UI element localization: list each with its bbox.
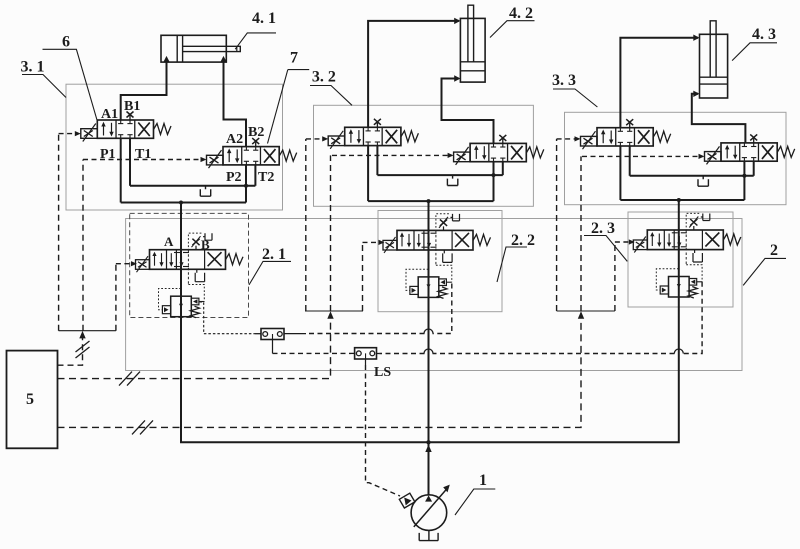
junction P2/T crossing s2	[492, 173, 496, 177]
wire T line section1	[130, 185, 255, 187]
wire P line section1	[121, 202, 246, 204]
wire P2 riser s2	[493, 162, 495, 201]
LS line comp2.3 seg2	[433, 353, 675, 355]
leader 3.1	[22, 75, 66, 98]
label 2.2	[511, 232, 535, 249]
label 2.1	[262, 246, 286, 263]
svg-text:4. 3: 4. 3	[752, 26, 776, 43]
pilot line into valve 2.2	[363, 240, 385, 245]
box 2.2 (compensator section 2 frame)	[378, 211, 502, 312]
svg-text:B1: B1	[124, 99, 140, 114]
svg-text:P1: P1	[100, 147, 116, 162]
wire T2 riser	[254, 165, 256, 186]
port label A1	[101, 107, 118, 122]
leader 7	[288, 69, 309, 71]
pilot riser to valve 2.1	[115, 264, 117, 331]
wire T1 riser s2	[376, 146, 378, 176]
LS stub into shuttle1 left	[255, 333, 261, 335]
pilot line into valve 7	[83, 157, 207, 162]
hop over pump line at LS2	[424, 349, 433, 354]
pilot bus section1	[59, 330, 116, 332]
svg-text:T2: T2	[258, 170, 274, 185]
pilot riser to valve 3.3R	[580, 156, 582, 311]
wire cyl4.1 left port to valve 6 A1	[121, 60, 167, 120]
label 3.1	[21, 59, 45, 76]
port label B (valve 2.1)	[201, 237, 210, 252]
leader 7b	[268, 70, 288, 144]
tank symbol section3	[698, 176, 708, 186]
pilot supply from 5 line c	[58, 316, 582, 427]
pilot riser to valve 3.3L	[556, 139, 558, 311]
directional valve 3.2 right	[454, 135, 544, 165]
label 2.3	[591, 220, 615, 237]
pilot line into valve 6	[59, 131, 81, 136]
LS stub shuttle2 bottom	[365, 359, 367, 365]
LS line shuttle1 to shuttle2	[273, 352, 352, 354]
leader 3.3	[553, 89, 597, 107]
hop over pump line at LS1	[424, 329, 433, 334]
svg-text:3. 1: 3. 1	[21, 59, 45, 76]
pump 1	[411, 485, 450, 531]
feed arrow bus2	[327, 311, 333, 319]
svg-text:B: B	[201, 237, 210, 252]
leader 2	[743, 258, 786, 285]
wire cyl4.3 bottom port to valve 3.3R A	[692, 94, 746, 143]
feed arrow bus1	[79, 331, 85, 339]
LS stub into shuttle2 left	[351, 352, 355, 354]
label LS	[374, 365, 391, 380]
label 2	[770, 242, 778, 259]
label 4.3	[752, 26, 776, 43]
box 2.3 (compensator section 3 frame)	[628, 212, 733, 307]
leader 4.2	[490, 21, 535, 38]
LS line comp2.3 seg3	[379, 353, 424, 355]
junction riser/P-line s2	[427, 199, 431, 203]
pilot supply from 5 line b	[58, 316, 331, 379]
hop over riser3 at LS	[674, 349, 683, 354]
pump tank symbol	[419, 530, 438, 540]
wire P1 riser	[120, 138, 122, 202]
LS stub shuttle1 bottom	[272, 340, 274, 354]
label 5	[26, 391, 34, 408]
leader 2.1	[249, 261, 291, 285]
pilot line into valve 2.3	[615, 239, 635, 244]
break symbol a	[76, 341, 90, 358]
LS line comp2.2 to shuttle1	[433, 284, 452, 334]
svg-text:A: A	[164, 234, 174, 249]
wire cyl4.3 top port to valve 3.3L A	[620, 38, 698, 128]
cylinder 4.1 port arrows	[163, 56, 226, 62]
svg-text:P2: P2	[226, 170, 242, 185]
label 3.3	[552, 72, 576, 89]
directional valve 3.2 left	[328, 119, 418, 149]
port label B2	[248, 125, 264, 140]
pump control actuator	[399, 493, 415, 508]
wire P1 riser s2	[367, 146, 369, 202]
port label B1	[124, 99, 140, 114]
wire P2 riser s3	[743, 161, 745, 200]
cylinder 4.2	[460, 5, 485, 82]
proportional valve 2.1	[136, 233, 244, 272]
label 1	[479, 472, 487, 489]
wire P line section2	[368, 200, 493, 202]
svg-text:7: 7	[290, 50, 298, 67]
junction P2/T crossing s3	[742, 174, 746, 178]
svg-text:A2: A2	[226, 132, 243, 147]
wire cyl4.1 right port to valve 7 A2	[224, 60, 247, 147]
junction P2/T crossing s1	[244, 184, 248, 188]
pressure compensator 2.2	[406, 230, 452, 298]
label 4.1	[252, 10, 276, 27]
leader 6	[43, 49, 98, 120]
pilot line into valve 3.2 right	[332, 153, 454, 158]
LS line comp2.1 to shuttle1	[200, 302, 255, 334]
break symbol b	[119, 372, 140, 386]
cylinder 4.3	[700, 21, 728, 98]
port label P2	[226, 170, 242, 185]
wire feed riser section1 (through valve 2.1 and compensator)	[181, 203, 429, 443]
pressure compensator 2.1	[159, 250, 205, 318]
reservoir/control unit 5	[7, 351, 58, 449]
wire feed riser section3 (through valve 2.3 and compensator)	[430, 200, 679, 442]
svg-text:2. 3: 2. 3	[591, 220, 615, 237]
directional valve 7 (section1 right)	[207, 138, 297, 168]
wire P1 riser s3	[619, 146, 621, 200]
break symbol c	[132, 420, 153, 434]
wire cyl4.2 top port to valve 3.2L A	[368, 21, 459, 127]
directional valve 3.3 left	[581, 119, 671, 149]
cylinder 4.1	[161, 35, 240, 62]
pilot line into valve 3.3 right	[582, 154, 705, 159]
junction riser/P-line s1	[179, 201, 183, 205]
proportional valve 2.3	[633, 213, 741, 252]
shuttle valve LS2	[355, 348, 377, 359]
label 4.2	[509, 5, 533, 22]
LS stub into shuttle2 right	[377, 353, 380, 355]
svg-text:3. 2: 3. 2	[312, 69, 336, 86]
junction main line/pump	[426, 440, 430, 444]
svg-text:T1: T1	[135, 147, 151, 162]
LS line comp2.3 to shuttle2	[683, 282, 702, 354]
tank symbol section1	[200, 186, 210, 196]
wire T2 riser s2	[502, 162, 504, 175]
port label P1	[100, 147, 116, 162]
pilot line into valve 3.3 left	[557, 136, 581, 141]
box 2 (inlet/compensator assembly frame)	[126, 219, 742, 371]
port label A2	[226, 132, 243, 147]
directional valve 6 (section1 left)	[81, 112, 171, 142]
label 3.2	[312, 69, 336, 86]
pilot riser to valve 2.2	[362, 242, 364, 311]
tank symbol section2	[447, 175, 457, 185]
wire T line section2	[377, 174, 502, 176]
pressure compensator 2.3	[656, 230, 702, 298]
svg-text:LS: LS	[374, 365, 391, 380]
port label T1	[135, 147, 151, 162]
svg-text:3. 3: 3. 3	[552, 72, 576, 89]
shuttle valve LS1	[261, 329, 284, 340]
wire feed riser section2 (through valve 2.2 to pump)	[428, 201, 430, 495]
pilot line into valve 3.2 left	[306, 136, 328, 141]
leader 3.2	[310, 86, 352, 106]
svg-text:2: 2	[770, 242, 778, 259]
pilot riser to valve 6	[58, 134, 60, 331]
wire T1 riser s3	[629, 146, 631, 176]
svg-text:4. 2: 4. 2	[509, 5, 533, 22]
proportional valve 2.2	[383, 214, 491, 253]
svg-text:2. 1: 2. 1	[262, 246, 286, 263]
wire cyl4.2 bottom port to valve 3.2R A	[442, 79, 494, 144]
pilot line into valve 2.1	[116, 261, 137, 266]
feed arrow bus3	[578, 311, 584, 319]
pilot supply from 5 line a	[58, 336, 83, 365]
leader 4.3	[732, 43, 777, 61]
leader 2.2	[497, 247, 527, 282]
leader 4.1	[235, 33, 276, 49]
svg-text:A1: A1	[101, 107, 118, 122]
port label A (valve 2.1)	[164, 234, 174, 249]
wire T line section3	[630, 175, 754, 177]
pilot bus section2	[305, 310, 363, 312]
LS line shuttle2 to pump	[366, 365, 401, 496]
svg-text:6: 6	[62, 34, 70, 51]
leader 1	[455, 489, 495, 515]
cylinder 4.3 port arrows	[693, 35, 699, 98]
svg-text:1: 1	[479, 472, 487, 489]
pilot riser to valve 3.2L	[305, 139, 307, 311]
pilot bus section3	[557, 310, 615, 312]
label 7	[290, 50, 298, 67]
box 3.2 (work section 2 frame)	[314, 105, 534, 206]
box 2.1 (compensator section 1 frame, dashed)	[130, 213, 249, 317]
pilot riser to valve 3.2R	[330, 155, 332, 311]
LS stub into shuttle1 right	[284, 333, 306, 335]
svg-text:B2: B2	[248, 125, 264, 140]
junction riser/P-line s3	[677, 198, 681, 202]
pilot riser to valve 2.3	[614, 242, 616, 311]
port label T2	[258, 170, 274, 185]
leader 2.3	[584, 236, 627, 262]
svg-text:5: 5	[26, 391, 34, 408]
wire T2 riser s3	[753, 161, 755, 176]
label 6	[62, 34, 70, 51]
wire T1 riser	[129, 138, 131, 186]
directional valve 3.3 right	[705, 134, 795, 164]
svg-text:4. 1: 4. 1	[252, 10, 276, 27]
box 3.3 (work section 3 frame)	[565, 112, 787, 204]
cylinder 4.2 port arrows	[454, 18, 460, 82]
box 3.1 (work section 1 frame)	[66, 84, 283, 210]
pilot riser to valve 7	[82, 160, 84, 331]
wire P2 riser	[245, 165, 247, 203]
LS line comp2.2 to shuttle1 b	[306, 333, 425, 335]
wire P line section3	[620, 199, 744, 201]
flow arrow on pump line	[425, 445, 431, 453]
